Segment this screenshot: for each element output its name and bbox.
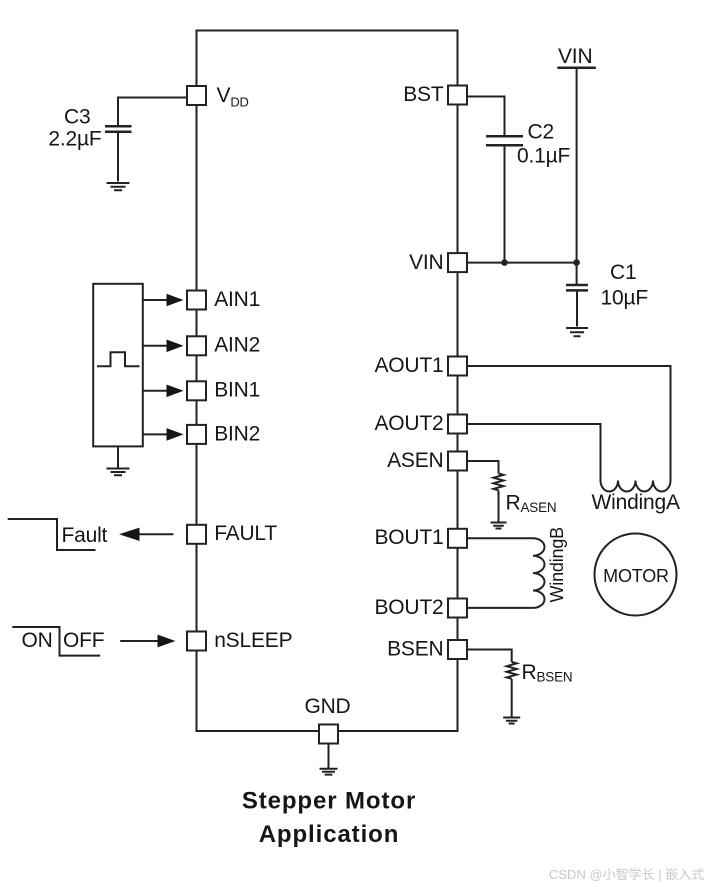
svg-text:C3: C3 — [64, 106, 90, 129]
svg-text:10µF: 10µF — [601, 287, 649, 310]
svg-text:GND: GND — [304, 695, 350, 718]
svg-text:AIN2: AIN2 — [214, 334, 260, 357]
svg-text:C2: C2 — [528, 121, 554, 144]
svg-text:C1: C1 — [610, 261, 636, 284]
svg-text:nSLEEP: nSLEEP — [214, 629, 292, 652]
svg-text:BIN1: BIN1 — [214, 379, 260, 402]
svg-text:FAULT: FAULT — [214, 522, 277, 545]
svg-text:VIN: VIN — [558, 45, 592, 68]
svg-text:VIN: VIN — [409, 251, 443, 274]
svg-text:WindingB: WindingB — [547, 527, 567, 603]
svg-text:ASEN: ASEN — [387, 449, 443, 472]
svg-text:BST: BST — [403, 83, 444, 106]
svg-text:Application: Application — [259, 821, 400, 848]
svg-text:WindingA: WindingA — [592, 491, 680, 514]
svg-text:BIN2: BIN2 — [214, 422, 260, 445]
svg-text:Stepper Motor: Stepper Motor — [242, 788, 416, 815]
svg-text:AOUT2: AOUT2 — [374, 412, 443, 435]
svg-text:ON: ON — [22, 629, 53, 652]
svg-text:MOTOR: MOTOR — [603, 566, 669, 586]
svg-text:Fault: Fault — [62, 524, 108, 547]
svg-text:CSDN @小智学长 | 嵌入式: CSDN @小智学长 | 嵌入式 — [549, 867, 704, 882]
svg-text:0.1µF: 0.1µF — [517, 145, 570, 168]
svg-text:AOUT1: AOUT1 — [374, 354, 443, 377]
svg-text:2.2µF: 2.2µF — [48, 128, 101, 151]
svg-text:BOUT2: BOUT2 — [374, 596, 443, 619]
svg-text:BSEN: BSEN — [387, 637, 443, 660]
svg-text:AIN1: AIN1 — [214, 288, 260, 311]
svg-text:OFF: OFF — [63, 629, 104, 652]
svg-text:BOUT1: BOUT1 — [374, 526, 443, 549]
